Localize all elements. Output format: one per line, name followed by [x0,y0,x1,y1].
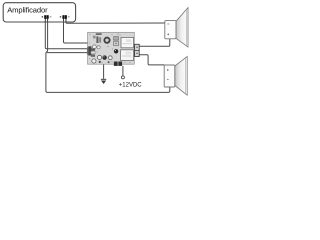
svg-text:+12VDC: +12VDC [119,82,143,88]
svg-text:Amplificador: Amplificador [7,6,48,15]
